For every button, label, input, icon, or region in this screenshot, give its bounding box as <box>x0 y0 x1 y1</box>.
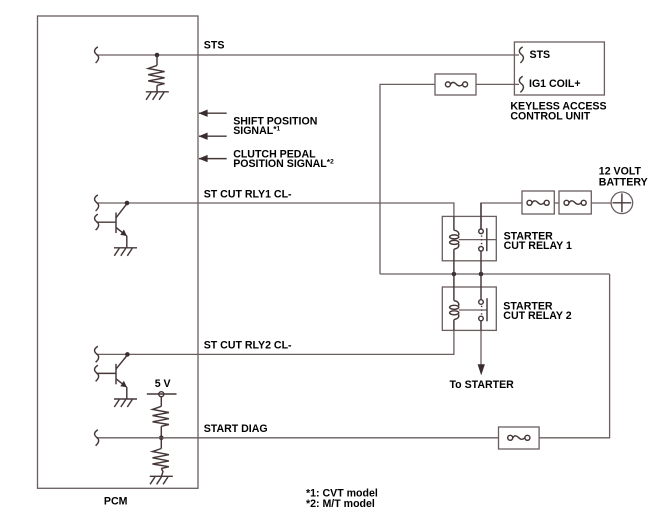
break in RLY1 collector wire <box>95 195 99 211</box>
svg-text:BATTERY: BATTERY <box>599 177 648 189</box>
break IG1 COIL+ inside keyless unit <box>519 76 523 92</box>
node rail relay1 coil dot <box>452 272 457 277</box>
relay 1 switch contacts <box>479 203 487 274</box>
svg-text:ST CUT RLY1 CL-: ST CUT RLY1 CL- <box>204 189 292 201</box>
break in RLY2 collector wire <box>95 346 99 362</box>
relay 2 switch contacts <box>479 274 487 330</box>
battery 12V symbol <box>611 192 633 214</box>
break in Q2 base wire <box>95 365 99 381</box>
arrow clutch pedal position signal <box>199 155 227 162</box>
wire between fuses <box>554 202 559 204</box>
svg-text:ST CUT RLY2 CL-: ST CUT RLY2 CL- <box>204 340 292 352</box>
svg-text:CUT RELAY 1: CUT RELAY 1 <box>504 240 572 252</box>
arrow shift position signal <box>199 110 227 117</box>
relay 1 armature link line <box>459 239 497 241</box>
svg-text:STS: STS <box>530 49 551 61</box>
svg-text:POSITION SIGNAL*2: POSITION SIGNAL*2 <box>233 157 334 170</box>
break STS inside keyless unit <box>519 47 523 63</box>
svg-text:IG1 COIL+: IG1 COIL+ <box>529 78 581 90</box>
transistor Q2 <box>116 355 127 399</box>
wire right loop from rail to bottom fuse <box>539 274 610 438</box>
svg-text:PCM: PCM <box>104 495 128 507</box>
node START DIAG junction dot <box>159 436 164 441</box>
resistor STS pull-down <box>148 65 164 85</box>
transistor Q1 <box>116 204 127 248</box>
wire Q1 base <box>96 221 116 223</box>
fuse F4 (START DIAG) <box>499 427 540 449</box>
node Q2 collector dot <box>125 352 130 357</box>
wire To STARTER with arrowhead <box>478 330 485 375</box>
break in Q1 base wire <box>95 214 99 230</box>
svg-text:To STARTER: To STARTER <box>450 379 515 391</box>
wire IG1 COIL+ from keyless to fuse <box>476 83 519 85</box>
coil supply rail <box>380 273 610 275</box>
PCM box <box>38 16 199 488</box>
svg-text:START DIAG: START DIAG <box>204 423 268 435</box>
wire STS horizontal from PCM to keyless unit <box>96 54 519 56</box>
relay 2 box <box>442 287 496 330</box>
KEYLESS ACCESS CONTROL UNIT box <box>514 42 604 95</box>
wire ST CUT RLY1 CL- from PCM to relay 1 coil <box>96 203 454 216</box>
break in START DIAG wire <box>95 430 99 446</box>
fuse F3 <box>559 191 591 214</box>
svg-text:*2: M/T model: *2: M/T model <box>306 498 375 510</box>
ground under Q2 emitter <box>114 399 137 407</box>
node Q1 collector dot <box>125 201 130 206</box>
svg-text:CONTROL UNIT: CONTROL UNIT <box>510 110 590 122</box>
node rail relay1 switch dot <box>479 272 484 277</box>
relay 2 coil <box>450 274 459 330</box>
relay 2 armature link line <box>459 309 487 311</box>
wire lower resistor to ground <box>161 469 163 477</box>
ground under STS resistor <box>146 92 169 100</box>
relay 1 coil <box>450 216 459 274</box>
svg-text:CUT RELAY 2: CUT RELAY 2 <box>503 310 571 322</box>
wire ST CUT RLY2 CL- from PCM to relay 2 coil <box>96 330 454 354</box>
wire fuse F3 to battery <box>591 202 611 204</box>
wire START DIAG from PCM to bottom fuse <box>96 437 498 439</box>
relay 1 box <box>442 216 496 260</box>
svg-text:SIGNAL*1: SIGNAL*1 <box>233 124 280 137</box>
wire to START DIAG node <box>160 426 162 438</box>
fuse F2 <box>522 191 554 214</box>
wire resistor bottom lead <box>156 85 158 91</box>
ground under divider <box>150 476 173 484</box>
node STS junction dot <box>155 53 160 58</box>
svg-text:5 V: 5 V <box>155 378 171 390</box>
svg-text:STS: STS <box>204 39 225 51</box>
resistor R upper of START DIAG divider <box>153 406 169 426</box>
fuse F1 (IG1 COIL+) <box>435 74 476 95</box>
resistor R lower of START DIAG divider <box>153 438 169 469</box>
battery feed wire to relay 1 switch <box>481 203 522 229</box>
wire resistor top lead <box>156 55 158 65</box>
break in STS wire at PCM <box>95 47 99 63</box>
ground under Q1 emitter <box>114 248 137 256</box>
wire fuse F1 to vertical feed <box>380 84 435 274</box>
5V supply terminal <box>147 392 177 397</box>
arrow middle signal <box>199 133 227 140</box>
wire 5V lead <box>160 397 162 407</box>
wire Q2 base <box>96 372 116 374</box>
